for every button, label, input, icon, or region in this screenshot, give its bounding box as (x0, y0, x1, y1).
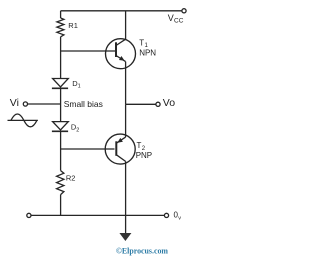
svg-text:v: v (178, 216, 181, 222)
transistor T2 emitter with PNP arrow (117, 104, 126, 143)
diode D1 (52, 79, 68, 89)
ground arrow (119, 233, 131, 241)
terminal Vcc circle (182, 9, 186, 13)
svg-text:CC: CC (174, 18, 184, 25)
resistor R1 (57, 18, 64, 37)
transistor T1 circle (106, 39, 136, 69)
label D2 (71, 122, 79, 133)
label Vcc (168, 13, 184, 25)
diode D2 (52, 122, 68, 132)
svg-text:Small bias: Small bias (64, 99, 103, 109)
wire bottom rail 0v (31, 214, 164, 216)
wire T2 base lead (61, 148, 115, 150)
terminal Vo circle (156, 102, 160, 106)
transistor T2 collector (116, 155, 125, 233)
wire top rail Vcc (61, 10, 182, 12)
svg-text:R1: R1 (68, 21, 78, 30)
label D1 (72, 79, 80, 90)
svg-text:2: 2 (76, 127, 79, 133)
resistor R2 (57, 171, 64, 195)
terminal circle bottom left (27, 213, 31, 217)
wire bus D1 to D2 (60, 88, 62, 121)
terminal Vi circle (23, 102, 27, 106)
label T2 (137, 141, 146, 152)
label T1 (139, 39, 148, 50)
svg-text:NPN: NPN (139, 48, 156, 57)
wire Vi lead (28, 103, 61, 105)
transistor T1 base bar (115, 42, 117, 57)
transistor T2 base bar (115, 141, 117, 156)
wire bus D2 to R2 (60, 131, 62, 170)
wire T1 base lead (61, 50, 116, 52)
svg-text:Vo: Vo (163, 97, 175, 109)
svg-text:R2: R2 (66, 173, 76, 182)
transistor T2 circle (105, 134, 135, 164)
svg-text:©Elprocus.com: ©Elprocus.com (116, 246, 169, 256)
svg-text:PNP: PNP (136, 151, 152, 160)
wire Vo lead (126, 103, 156, 105)
label 0v (174, 211, 182, 222)
input sine wave symbol (8, 114, 38, 127)
svg-text:V: V (168, 13, 174, 23)
wire bus top stub (60, 11, 62, 18)
transistor T1 emitter with NPN arrow (116, 56, 126, 105)
svg-text:Vi: Vi (10, 97, 19, 109)
svg-text:T: T (139, 39, 144, 48)
wire bus R1 to D1 (60, 37, 62, 79)
transistor T1 collector (116, 11, 126, 46)
terminal circle 0v (164, 213, 168, 217)
svg-text:1: 1 (78, 84, 81, 90)
wire bus R2 to bottom rail (60, 195, 62, 216)
